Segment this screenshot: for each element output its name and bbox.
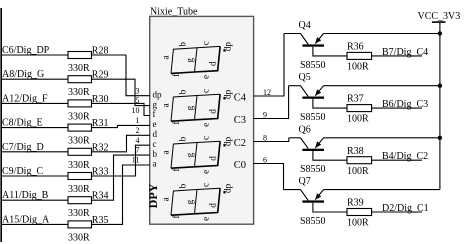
svg-text:g: g [185,58,195,63]
resistor R39 100R [347,209,372,216]
svg-text:330R: 330R [68,184,90,195]
resistor R33 330R [68,173,92,180]
svg-text:f: f [153,109,156,119]
svg-text:Q7: Q7 [299,176,311,187]
wire pin 12 to Q4 collector [254,34,284,97]
wire Q4 emitter to VCC rail [324,33,441,35]
wire A11/Dig_B to R34 [2,199,68,201]
wire Q5 emitter to VCC rail [324,85,441,87]
seven-segment digit glyph 1 [171,48,197,74]
Q7 emitter lead [315,190,323,200]
svg-text:b: b [177,42,187,47]
sheet left border [0,8,2,242]
Q7 base lead [313,203,347,212]
svg-text:c: c [153,139,157,149]
transistor Q7 S8550 PNP [302,200,324,202]
svg-text:C4: C4 [234,93,247,104]
Q6 collector lead [289,137,301,139]
svg-text:dp: dp [223,89,233,99]
svg-text:e: e [201,217,211,221]
resistor R36 100R [347,52,372,59]
resistor R35 330R [68,221,92,228]
Q4 base lead [313,47,347,56]
resistor R37 100R [347,105,372,112]
wire R30 to pin 10 [92,103,150,115]
svg-text:dp: dp [153,89,163,99]
svg-text:A8/Dig_G: A8/Dig_G [2,69,44,80]
svg-text:e: e [201,123,211,127]
svg-text:C3: C3 [234,115,246,126]
svg-text:Q6: Q6 [299,124,311,135]
svg-text:S8550: S8550 [300,164,326,175]
svg-text:R37: R37 [347,94,364,105]
Q7 collector lead [284,189,301,191]
svg-text:d: d [153,129,158,139]
VCC_3V3 rail [439,22,441,190]
svg-text:c: c [201,89,211,93]
svg-text:d: d [207,109,217,114]
svg-text:330R: 330R [68,136,90,147]
svg-text:3: 3 [136,86,140,95]
svg-text:C7/Dig_D: C7/Dig_D [2,142,44,153]
svg-text:R36: R36 [347,42,364,53]
svg-text:Q5: Q5 [299,72,311,83]
svg-text:B6/Dig_C3: B6/Dig_C3 [382,99,428,110]
svg-text:100R: 100R [347,166,369,177]
svg-text:100R: 100R [347,114,369,125]
svg-text:e: e [201,75,211,79]
svg-text:DPY: DPY [146,183,160,208]
junction [438,136,442,140]
svg-text:c: c [201,41,211,45]
junction [438,31,442,35]
Q5 collector lead [289,85,301,87]
wire R37 to net B6/Dig_C3 [372,107,422,109]
resistor R31 330R [68,124,92,131]
svg-text:d: d [207,61,217,66]
svg-text:100R: 100R [347,218,369,229]
seven-segment digit glyph 2 [171,96,197,122]
svg-text:dp: dp [223,42,233,52]
svg-text:b: b [177,136,187,141]
wire R34 to pin 7 [92,155,150,200]
Q5 base lead [313,99,347,108]
svg-text:2: 2 [136,126,140,135]
Q6 base lead [313,151,347,160]
svg-text:dp: dp [223,136,233,146]
svg-text:4: 4 [136,136,140,145]
svg-text:1: 1 [136,116,140,125]
svg-text:a: a [161,55,171,59]
junction [438,84,442,88]
svg-text:B7/Dig_C4: B7/Dig_C4 [382,47,428,58]
svg-text:C9/Dig_C: C9/Dig_C [2,166,43,177]
svg-text:C2: C2 [234,138,246,149]
svg-text:330R: 330R [68,111,90,122]
svg-text:330R: 330R [68,208,90,219]
svg-text:d: d [207,156,217,161]
svg-text:S8550: S8550 [300,60,326,71]
svg-text:S8550: S8550 [300,112,326,123]
svg-text:7: 7 [136,146,140,155]
svg-text:b: b [177,183,187,188]
svg-text:e: e [153,119,157,129]
transistor Q6 S8550 PNP [302,149,324,151]
svg-text:Q4: Q4 [299,20,311,31]
svg-text:g: g [185,199,195,204]
wire pin 8 to Q6 collector [254,138,289,142]
Q6 emitter lead [315,138,323,148]
wire R29 to pin 5 [92,79,150,105]
svg-text:VCC_3V3: VCC_3V3 [418,11,461,22]
wire pin 6 to Q7 collector [254,164,284,190]
svg-text:A11/Dig_B: A11/Dig_B [2,190,49,201]
resistor R28 330R [68,52,92,59]
svg-text:dp: dp [223,183,233,193]
svg-text:g: g [153,99,158,109]
svg-text:A15/Dig_A: A15/Dig_A [2,214,50,225]
svg-text:330R: 330R [68,160,90,171]
svg-text:R39: R39 [347,198,364,209]
svg-text:c: c [201,136,211,140]
Q5 emitter lead [315,86,323,96]
resistor R34 330R [68,197,92,204]
wire R33 to pin 4 [92,145,150,176]
svg-text:B4/Dig_C2: B4/Dig_C2 [382,151,428,162]
wire R36 to net B7/Dig_C4 [372,55,422,57]
wire A8/Dig_G to R29 [2,78,68,80]
wire A15/Dig_A to R35 [2,223,68,225]
svg-text:a: a [161,103,171,107]
resistor R32 330R [68,148,92,155]
svg-text:C0: C0 [234,160,246,171]
Q4 collector lead [284,33,301,35]
svg-text:b: b [177,89,187,94]
svg-text:a: a [161,150,171,154]
svg-text:g: g [185,152,195,157]
wire Q7 emitter to VCC rail [324,189,441,191]
wire Q6 emitter to VCC rail [324,137,441,139]
wire C8/Dig_E to R31 [2,127,68,129]
svg-text:10: 10 [132,106,140,115]
wire R32 to pin 2 [92,135,150,152]
resistor R38 100R [347,157,372,164]
svg-text:330R: 330R [68,87,90,98]
svg-text:d: d [207,203,217,208]
svg-text:D2/Dig_C1: D2/Dig_C1 [382,203,429,214]
transistor Q5 S8550 PNP [302,97,324,99]
transistor Q4 S8550 PNP [302,44,324,46]
svg-text:A12/Dig_F: A12/Dig_F [2,93,48,104]
svg-text:a: a [161,197,171,201]
svg-text:a: a [153,159,157,169]
wire R38 to net B4/Dig_C2 [372,159,422,161]
svg-text:R38: R38 [347,146,364,157]
svg-text:330R: 330R [68,232,90,243]
wire R28 to pin 3 [92,55,150,96]
wire C6/Dig_DP to R28 [2,54,68,56]
svg-text:Nixie_Tube: Nixie_Tube [150,7,198,18]
svg-text:S8550: S8550 [300,216,326,227]
component box U? Nixie_Tube [150,16,254,224]
resistor R29 330R [68,76,92,83]
wire A12/Dig_F to R30 [2,102,68,104]
resistor R30 330R [68,100,92,107]
wire pin 9 to Q5 collector [254,86,289,119]
svg-text:C6/Dig_DP: C6/Dig_DP [2,45,50,56]
svg-text:g: g [185,105,195,110]
svg-text:b: b [153,149,158,159]
seven-segment digit glyph 4 [171,190,197,216]
svg-text:c: c [201,183,211,187]
wire R35 to pin 11 [92,165,150,224]
wire C7/Dig_D to R32 [2,151,68,153]
svg-text:e: e [201,170,211,174]
Q4 emitter lead [315,34,323,44]
wire R31 to pin 1 [92,125,150,127]
svg-text:100R: 100R [347,62,369,73]
wire R39 to net D2/Dig_C1 [372,211,422,213]
seven-segment digit glyph 3 [171,143,197,169]
svg-text:330R: 330R [68,63,90,74]
svg-text:C8/Dig_E: C8/Dig_E [2,118,43,129]
wire C9/Dig_C to R33 [2,175,68,177]
